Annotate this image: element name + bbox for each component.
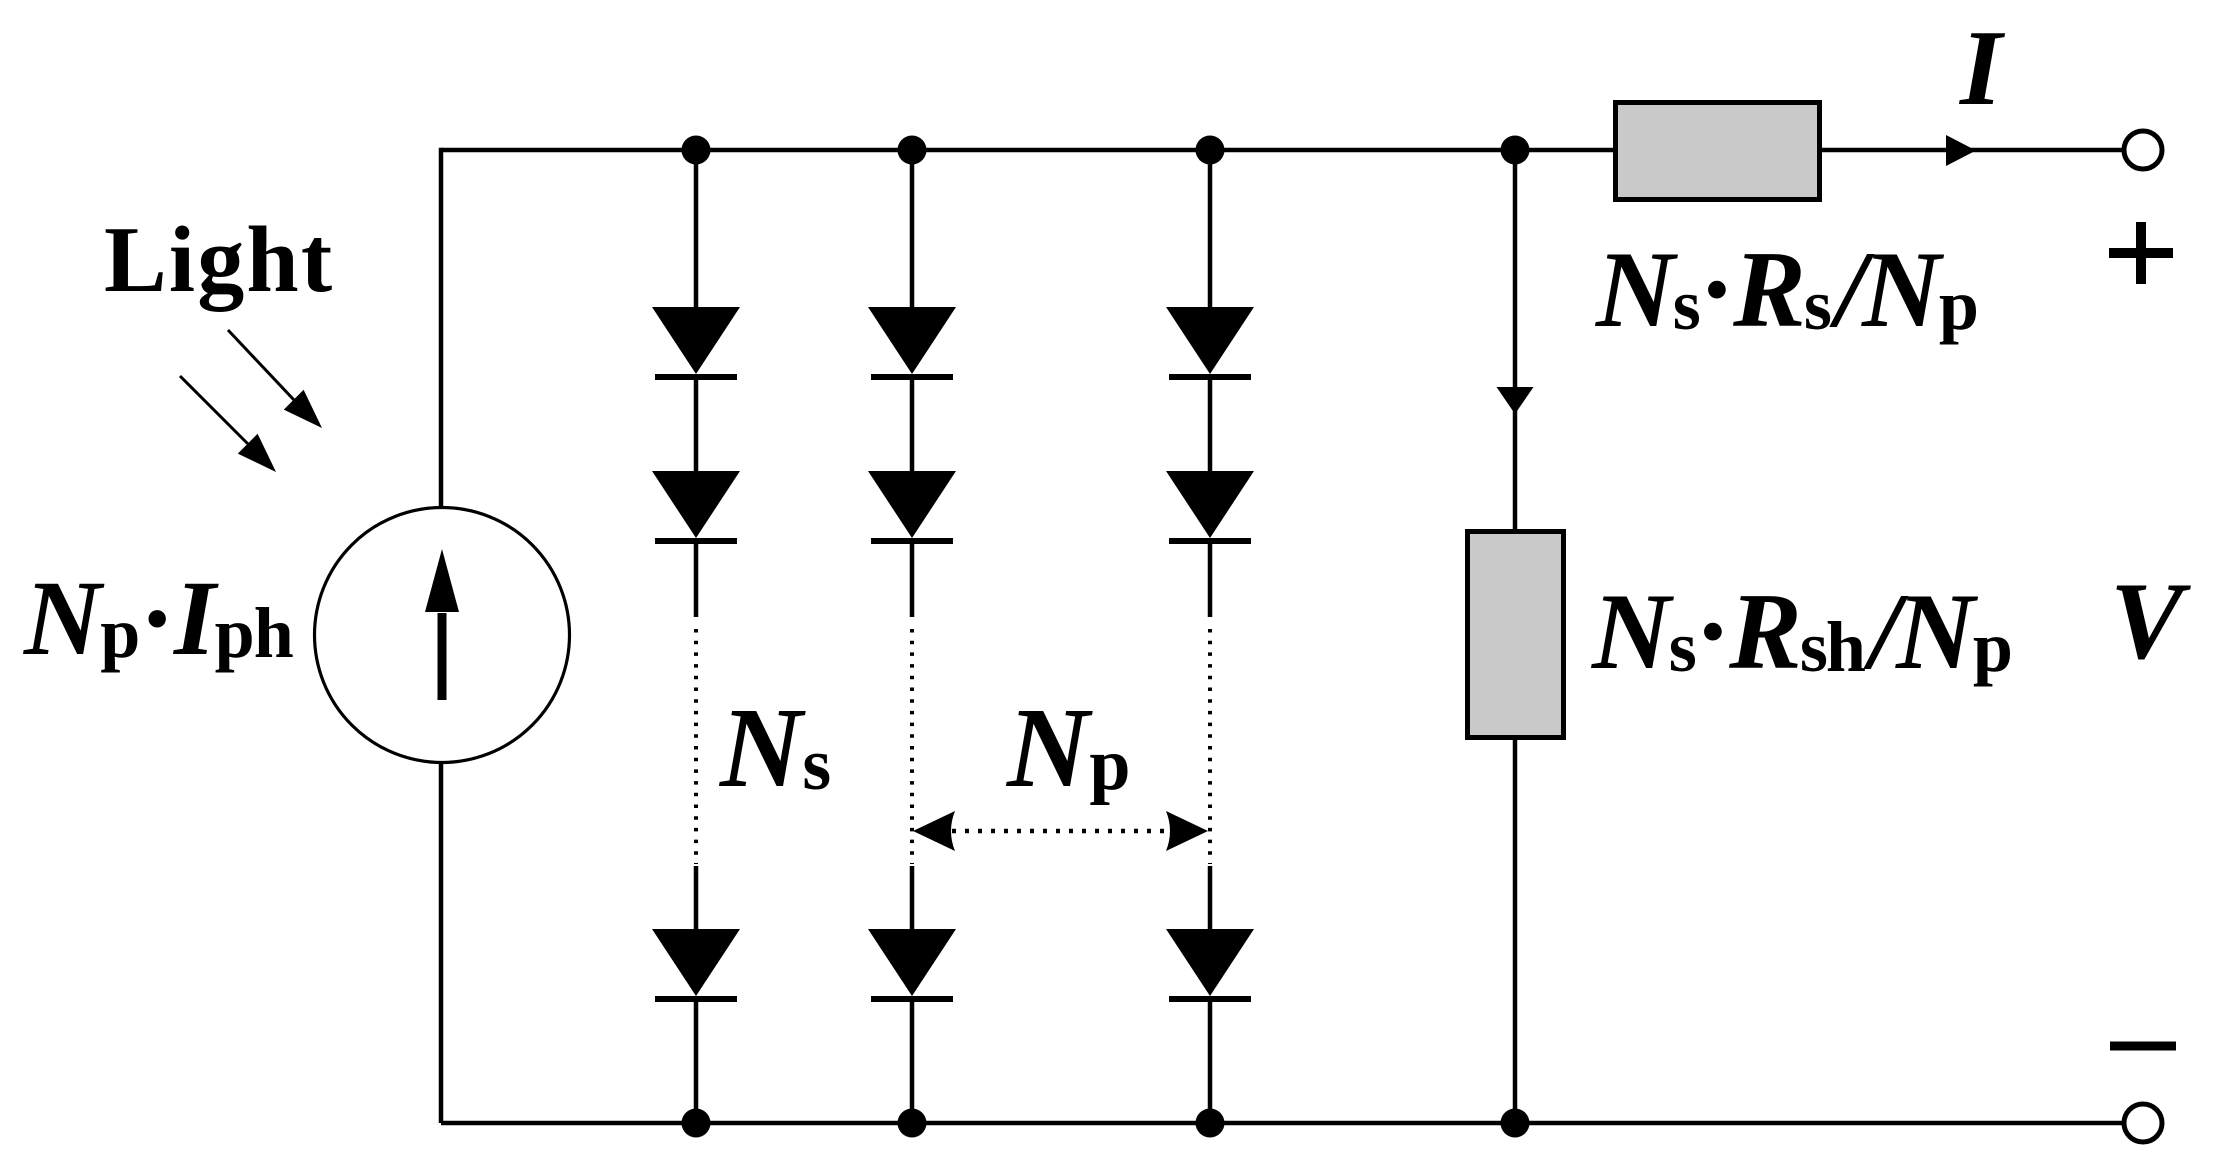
diode D9 string3 (1166, 929, 1254, 999)
diode D6 string2 (868, 929, 956, 999)
svg-text:Ns·Rs/Np: Ns·Rs/Np (1594, 229, 1977, 350)
minus sign (2110, 1042, 2176, 1051)
node junction dots top rail (682, 136, 711, 165)
shunt branch arrow (1497, 387, 1534, 414)
diode D2 string1 (652, 471, 740, 541)
Np dimension dotted arrow (913, 811, 1208, 851)
plus sign (2109, 222, 2173, 284)
terminal negative (2124, 1104, 2162, 1142)
diode D1 string1 (652, 307, 740, 377)
light arrow lower (180, 376, 276, 472)
diode D4 string2 (868, 307, 956, 377)
wire left branch upper (439, 148, 444, 509)
diode D7 string3 (1166, 307, 1254, 377)
diode string 2 dotted section (910, 629, 914, 864)
wire bottom rail (441, 1121, 2124, 1126)
shunt branch wire lower (1513, 740, 1518, 1123)
diode string 1 dotted section (694, 629, 698, 864)
svg-text:Light: Light (104, 208, 334, 312)
shunt branch wire upper (1513, 150, 1518, 531)
current I arrowhead (1946, 135, 1976, 166)
current source I1 arrow (425, 549, 459, 700)
current source I1 circle (315, 508, 570, 763)
light arrow upper (228, 330, 322, 428)
resistor Rs body (1616, 103, 1820, 200)
diode string 2 wires (910, 150, 915, 1123)
svg-text:V: V (2110, 560, 2191, 682)
wire left branch lower (439, 762, 444, 1123)
diode string 3 dotted section (1208, 629, 1212, 864)
terminal positive (2124, 131, 2162, 169)
diode D8 string3 (1166, 471, 1254, 541)
diode D3 string1 (652, 929, 740, 999)
wire top rail (441, 148, 2124, 153)
diode string 3 wires (1208, 150, 1213, 1123)
diode string 1 wires (694, 150, 699, 1123)
svg-text:I: I (1958, 9, 2006, 128)
resistor Rsh body (1468, 532, 1564, 738)
diode D5 string2 (868, 471, 956, 541)
node junction dots bottom rail (682, 1109, 711, 1138)
